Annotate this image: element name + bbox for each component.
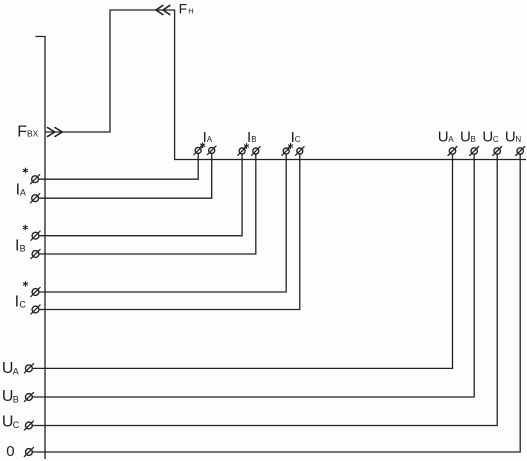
svg-text:C: C	[493, 135, 499, 144]
svg-text:B: B	[251, 135, 256, 144]
svg-text:C: C	[295, 135, 301, 144]
svg-text:A: A	[13, 366, 19, 376]
svg-text:H: H	[188, 6, 193, 15]
svg-text:F: F	[17, 124, 27, 141]
svg-text:I: I	[15, 294, 19, 311]
svg-text:U: U	[438, 128, 449, 145]
svg-text:U: U	[460, 128, 471, 145]
svg-text:BX: BX	[27, 129, 39, 139]
svg-text:C: C	[19, 300, 26, 310]
svg-text:B: B	[13, 395, 19, 405]
svg-text:A: A	[448, 135, 454, 144]
svg-text:C: C	[13, 420, 20, 430]
svg-text:U: U	[482, 128, 493, 145]
svg-text:B: B	[471, 135, 476, 144]
svg-text:F: F	[179, 0, 188, 16]
svg-text:A: A	[207, 135, 213, 144]
svg-text:U: U	[505, 128, 516, 145]
svg-text:B: B	[20, 244, 26, 254]
svg-text:N: N	[515, 135, 521, 144]
svg-text:0: 0	[6, 443, 14, 460]
svg-text:A: A	[20, 188, 26, 198]
